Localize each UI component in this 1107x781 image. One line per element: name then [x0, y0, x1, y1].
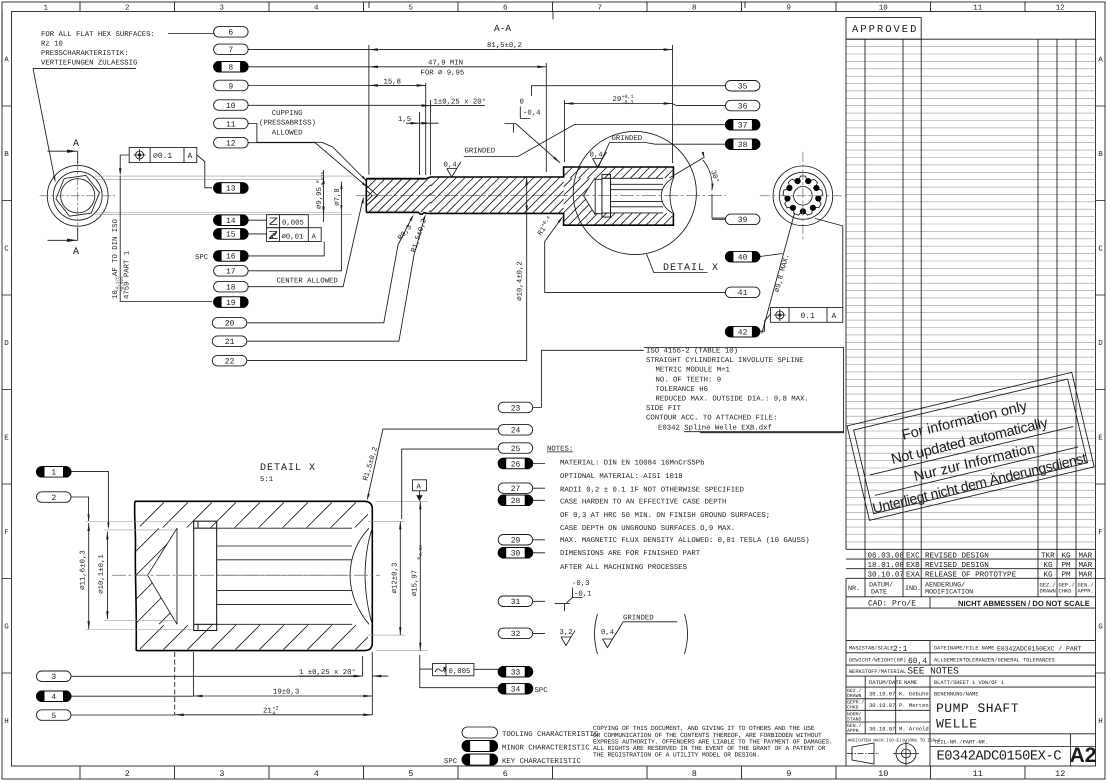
svg-text:12: 12	[1055, 769, 1065, 779]
svg-text:MAR: MAR	[1079, 552, 1093, 560]
legend placeholder	[444, 725, 833, 766]
svg-text:APPROVED: APPROVED	[852, 24, 918, 36]
svg-text:15,8: 15,8	[384, 79, 402, 87]
svg-text:A: A	[832, 312, 837, 321]
leader 21	[247, 255, 414, 341]
balloon 26	[498, 458, 533, 469]
balloon 21	[212, 336, 247, 347]
svg-text:METRIC MODULE M=1: METRIC MODULE M=1	[656, 367, 731, 375]
svg-text:MAR: MAR	[1079, 572, 1093, 580]
svg-text:3,2: 3,2	[560, 629, 573, 637]
svg-text:40: 40	[738, 253, 748, 262]
svg-text:⌀7,8: ⌀7,8	[334, 188, 342, 206]
(0,4 GRINDED)	[595, 614, 598, 654]
balloon 31	[498, 596, 533, 607]
svg-text:EXB: EXB	[906, 562, 920, 570]
legend minor characteristic	[462, 741, 498, 752]
svg-text:CAD: Pro/E: CAD: Pro/E	[868, 600, 916, 609]
shaft centerline	[356, 195, 726, 197]
svg-text:12: 12	[1056, 4, 1065, 13]
svg-text:-0,4: -0,4	[523, 110, 541, 118]
balloon 22	[212, 355, 247, 366]
svg-text:WELLE: WELLE	[936, 717, 978, 732]
svg-text:K. Gebuhe: K. Gebuhe	[899, 691, 929, 698]
dim d9,95	[323, 170, 325, 222]
svg-text:14: 14	[226, 217, 236, 226]
svg-text:81,5±0,2: 81,5±0,2	[487, 42, 522, 50]
svg-text:H: H	[4, 718, 9, 726]
balloon 40	[725, 251, 760, 262]
balloon 27	[498, 483, 533, 494]
svg-text:AF TO DIN ISO: AF TO DIN ISO	[112, 218, 120, 276]
svg-text:11: 11	[226, 120, 236, 129]
svg-text:20: 20	[225, 320, 235, 329]
svg-text:8: 8	[692, 769, 697, 779]
svg-text:Rz 10: Rz 10	[41, 41, 63, 49]
svg-text:NOTES:: NOTES:	[547, 446, 573, 454]
svg-text:CASE DEPTH ON UNGROUND SURFACE: CASE DEPTH ON UNGROUND SURFACES O,9 MAX.	[560, 525, 735, 533]
leader 25 to d12 dim	[402, 449, 499, 519]
leader 17	[248, 218, 341, 271]
leader 41 R1	[545, 218, 726, 293]
pump shaft outline	[366, 177, 430, 212]
svg-text:DIMENSIONS ARE FOR FINISHED PA: DIMENSIONS ARE FOR FINISHED PART	[560, 550, 701, 558]
balloon 25	[498, 443, 533, 454]
svg-text:CENTER ALLOWED: CENTER ALLOWED	[277, 278, 339, 286]
svg-text:8: 8	[692, 4, 697, 13]
svg-text:30.10.07: 30.10.07	[868, 571, 904, 580]
svg-text:REVISED DESIGN: REVISED DESIGN	[925, 551, 989, 560]
leader 1	[71, 471, 108, 527]
svg-text:MASZSTAB/SCALE: MASZSTAB/SCALE	[849, 646, 894, 652]
svg-text:23: 23	[511, 404, 521, 413]
leader 3	[71, 675, 360, 677]
feature control frame pos 0.1 A	[129, 148, 197, 163]
left letters	[4, 57, 9, 727]
svg-text:5: 5	[51, 712, 56, 721]
spline end concave	[670, 178, 673, 213]
svg-text:G: G	[4, 623, 9, 632]
leader 23	[533, 350, 644, 407]
balloon 19	[214, 297, 249, 308]
balloon 13	[214, 183, 249, 194]
balloon 38	[725, 139, 760, 150]
svg-text:GEWICHT/WEIGHT(GR): GEWICHT/WEIGHT(GR)	[849, 658, 906, 664]
svg-text:4: 4	[314, 769, 319, 779]
svg-text:DRAWN: DRAWN	[847, 693, 862, 699]
svg-text:37: 37	[738, 122, 748, 131]
svg-text:42: 42	[738, 329, 748, 338]
svg-text:0: 0	[520, 99, 524, 107]
dim 21 +2/0	[174, 652, 176, 715]
svg-text:10: 10	[878, 769, 888, 779]
svg-text:F: F	[4, 529, 9, 537]
svg-text:CHKD: CHKD	[847, 705, 859, 711]
leader 7	[248, 48, 369, 50]
svg-text:39: 39	[738, 216, 748, 225]
svg-text:34: 34	[511, 685, 521, 694]
balloon 11	[214, 118, 249, 129]
svg-text:33: 33	[511, 669, 521, 678]
svg-text:13: 13	[226, 185, 236, 194]
spline cone	[584, 178, 596, 215]
balloon 9	[214, 80, 249, 91]
note box	[644, 348, 844, 433]
svg-text:6: 6	[228, 29, 233, 38]
svg-text:0,4: 0,4	[590, 151, 604, 159]
svg-text:10: 10	[226, 102, 236, 111]
svg-text:26: 26	[511, 460, 521, 469]
leaders 26-30 short	[533, 464, 545, 553]
svg-text:OF 0,3 AT HRC 50 MIN. ON FINIS: OF 0,3 AT HRC 50 MIN. ON FINISH GROUND S…	[560, 512, 770, 520]
svg-text:ALLOWED: ALLOWED	[272, 129, 303, 137]
detail block outline	[135, 501, 137, 650]
svg-text:RELEASE OF PROTOTYPE: RELEASE OF PROTOTYPE	[925, 571, 1017, 580]
rightgrid placeholder	[846, 18, 1096, 597]
svg-text:P. Merten: P. Merten	[899, 702, 929, 709]
svg-text:CHKD: CHKD	[1059, 589, 1072, 595]
svg-text:CASE HARDEN TO AN EFFECTIVE CA: CASE HARDEN TO AN EFFECTIVE CASE DEPTH	[560, 498, 726, 506]
svg-text:DATEINAME/FILE NAME: DATEINAME/FILE NAME	[934, 646, 994, 652]
svg-text:E0342ADC0150EXC / PART: E0342ADC0150EXC / PART	[997, 646, 1082, 653]
leader 39	[712, 218, 725, 220]
balloon 7	[214, 44, 249, 55]
svg-text:41: 41	[738, 289, 748, 298]
balloon 37	[725, 120, 760, 131]
dim 1,5	[419, 112, 421, 175]
svg-text:OPTIONAL MATERIAL: AISI 1018: OPTIONAL MATERIAL: AISI 1018	[560, 473, 683, 481]
feature control frame 0.1 A	[771, 308, 843, 323]
svg-text:27: 27	[511, 485, 521, 494]
dim 47,9 MIN	[545, 63, 547, 172]
svg-text:MAX. MAGNETIC FLUX DENSITY ALL: MAX. MAGNETIC FLUX DENSITY ALLOWED: 0,01…	[560, 536, 810, 545]
top numbers	[43, 4, 1064, 13]
svg-text:-0,05: -0,05	[418, 545, 424, 559]
svg-text:A: A	[73, 247, 79, 258]
svg-text:32: 32	[511, 630, 521, 639]
balloon 3	[37, 671, 72, 682]
svg-text:C: C	[1098, 245, 1103, 254]
circlip ring redraw detail	[194, 521, 217, 630]
svg-text:GRINDED: GRINDED	[465, 148, 496, 156]
svg-text:6: 6	[503, 769, 508, 779]
svg-text:KEY CHARACTERISTIC: KEY CHARACTERISTIC	[502, 758, 581, 766]
svg-text:1: 1	[43, 5, 48, 13]
svg-text:APPR.: APPR.	[847, 728, 861, 734]
balloon 39	[725, 214, 760, 225]
balloon 15	[214, 229, 249, 240]
undercut groove R0,3	[419, 212, 423, 214]
svg-text:19: 19	[226, 299, 236, 308]
svg-text:4: 4	[51, 693, 56, 702]
svg-text:+0,175: +0,175	[116, 276, 121, 292]
svg-text:SPC: SPC	[535, 687, 549, 695]
balloon 29	[498, 535, 533, 546]
svg-text:47,9 MIN: 47,9 MIN	[428, 60, 463, 68]
svg-text:1: 1	[51, 469, 56, 478]
svg-text:30.10.07: 30.10.07	[869, 702, 895, 709]
svg-text:SPC: SPC	[195, 254, 209, 262]
leader 11	[248, 124, 366, 181]
balloon 35	[725, 81, 760, 92]
section arrows A-A	[77, 151, 79, 240]
revision entries	[846, 549, 1096, 597]
section view A-A hex end	[47, 165, 108, 226]
svg-text:2:1: 2:1	[893, 645, 908, 654]
svg-text:29: 29	[613, 96, 622, 104]
centerline detail	[112, 574, 380, 576]
dim 81,5±0,2	[369, 45, 673, 175]
balloon 16	[214, 251, 249, 262]
leader to balloon 19	[120, 176, 212, 301]
svg-text:MINOR CHARACTERISTIC: MINOR CHARACTERISTIC	[502, 744, 590, 752]
svg-text:TKR: TKR	[1041, 552, 1055, 560]
svg-text:EXA: EXA	[906, 572, 920, 580]
svg-text:2: 2	[125, 4, 130, 13]
svg-text:MATERIAL: DIN EN 10084 16MnCrS: MATERIAL: DIN EN 10084 16MnCrS5Pb	[560, 459, 705, 468]
30° angle	[670, 157, 705, 178]
spline end view	[773, 166, 833, 226]
svg-text:⌀0,01: ⌀0,01	[282, 233, 305, 241]
svg-text:THE REGISTRATION OF A UTILITY: THE REGISTRATION OF A UTILITY MODEL OR D…	[593, 752, 760, 759]
leader 2	[71, 497, 89, 521]
balloon 8	[214, 62, 249, 73]
balloon 4	[37, 691, 72, 702]
svg-text:CUPPING: CUPPING	[272, 110, 303, 118]
leader 24 to R1,5 detail	[368, 429, 499, 498]
svg-text:D: D	[4, 340, 9, 348]
svg-text:7: 7	[597, 5, 602, 13]
svg-text:VERTIEFUNGEN ZULAESSIG: VERTIEFUNGEN ZULAESSIG	[41, 60, 137, 68]
bottom numbers	[125, 769, 1066, 779]
dim d10,1±0,1	[104, 530, 175, 621]
svg-text:TOLERANCE H6: TOLERANCE H6	[656, 386, 709, 394]
svg-text:5:1: 5:1	[260, 476, 274, 484]
datum A	[413, 480, 427, 491]
svg-text:⌀12±0,3: ⌀12±0,3	[392, 563, 400, 594]
leader 38	[646, 143, 726, 145]
svg-text:A: A	[1098, 57, 1103, 65]
svg-text:B: B	[1098, 151, 1103, 159]
svg-text:SIDE FIT: SIDE FIT	[646, 405, 682, 413]
svg-text:⌀15,97: ⌀15,97	[412, 570, 420, 596]
svg-text:A-A: A-A	[494, 23, 511, 34]
svg-text:C: C	[4, 245, 9, 254]
leader 36	[673, 104, 726, 106]
spline lines detail	[217, 527, 352, 529]
svg-text:18.01.08: 18.01.08	[868, 561, 905, 570]
balloon 42	[725, 326, 760, 337]
svg-text:EXC: EXC	[906, 551, 920, 560]
circlip ring redraw	[602, 175, 611, 218]
svg-text:25: 25	[511, 445, 521, 454]
svg-text:H: H	[1098, 718, 1103, 726]
svg-text:AFTER ALL MACHINING PROCESSES: AFTER ALL MACHINING PROCESSES	[560, 564, 688, 572]
leader 35	[532, 86, 726, 96]
svg-text:21: 21	[225, 338, 235, 347]
svg-text:DATUM/DATE: DATUM/DATE	[869, 679, 903, 686]
balloon 2	[37, 492, 72, 503]
d9,8 MAX.	[762, 213, 795, 334]
hatching	[367, 168, 672, 225]
leader 31/32	[533, 601, 545, 633]
svg-text:CONTOUR ACC. TO ATTACHED FILE:: CONTOUR ACC. TO ATTACHED FILE:	[646, 415, 777, 423]
dim 29 +0,1/-0,3	[563, 100, 565, 162]
svg-text:E: E	[4, 435, 9, 443]
stamp rule 1	[870, 427, 1073, 475]
leader 37	[673, 124, 726, 126]
svg-text:19±0,3: 19±0,3	[273, 689, 299, 697]
leader 8	[248, 66, 369, 68]
svg-text:1,5: 1,5	[398, 116, 411, 124]
notes placeholder	[547, 347, 844, 655]
svg-text:0,4: 0,4	[601, 629, 615, 637]
svg-text:DRAWN: DRAWN	[1040, 589, 1056, 595]
svg-text:A: A	[312, 233, 317, 241]
svg-text:WERKSTOFF/MATERIAL: WERKSTOFF/MATERIAL	[849, 669, 906, 675]
spline end concave detail	[365, 528, 372, 624]
svg-text:E0342ADC0150EX-C: E0342ADC0150EX-C	[937, 750, 1062, 765]
svg-text:A: A	[417, 484, 422, 492]
balloon 32	[498, 628, 533, 639]
balloons placeholder	[33, 27, 783, 721]
svg-text:17: 17	[226, 268, 236, 277]
3,2 roughness	[561, 631, 575, 646]
balloon 17	[214, 266, 249, 277]
right letters	[1098, 57, 1103, 727]
svg-text:11: 11	[973, 5, 983, 13]
svg-text:2: 2	[51, 494, 56, 503]
svg-text:SEE NOTES: SEE NOTES	[907, 666, 959, 677]
balloon 12	[214, 137, 249, 148]
balloon 20	[212, 318, 247, 329]
balloon 28	[498, 495, 533, 506]
svg-text:30.10.07: 30.10.07	[869, 726, 895, 733]
svg-text:4: 4	[314, 5, 319, 13]
svg-text:0,4: 0,4	[444, 161, 458, 169]
svg-text:BENENNUNG/NAME: BENENNUNG/NAME	[934, 692, 979, 698]
svg-text:GRINDED: GRINDED	[612, 135, 643, 143]
svg-text:-0,3: -0,3	[572, 580, 590, 588]
DETAIL X label	[647, 254, 708, 273]
svg-text:21: 21	[263, 707, 272, 715]
svg-text:MAR: MAR	[1079, 562, 1093, 570]
svg-text:30: 30	[511, 550, 521, 559]
frame 0,005 profile	[433, 663, 474, 675]
svg-text:9: 9	[786, 769, 791, 779]
APPROVED header box	[846, 18, 921, 40]
svg-text:06.03.08: 06.03.08	[868, 551, 905, 560]
leader 42	[759, 314, 771, 332]
balloon 33	[498, 667, 533, 678]
leader 4	[71, 695, 193, 697]
spline teeth lines	[611, 177, 663, 179]
leader 5	[71, 714, 175, 716]
svg-text:GRINDED: GRINDED	[623, 615, 654, 623]
dim 15,8	[425, 83, 427, 175]
dim d11,6±0,3	[86, 522, 193, 630]
svg-text:22: 22	[225, 357, 235, 366]
balloon 41	[725, 287, 760, 298]
svg-text:24: 24	[511, 427, 521, 436]
tooth gaps	[784, 178, 821, 214]
svg-text:38: 38	[738, 141, 748, 150]
dim d7,8	[340, 182, 342, 219]
titleblock placeholder	[846, 597, 1096, 767]
svg-text:0: 0	[273, 711, 276, 717]
svg-text:1±0,25 x 20°: 1±0,25 x 20°	[434, 98, 487, 106]
svg-text:BLATT/SHEET 1 VON/OF 1: BLATT/SHEET 1 VON/OF 1	[934, 680, 1004, 686]
svg-text:18: 18	[226, 284, 236, 293]
svg-text:REVISED DESIGN: REVISED DESIGN	[925, 561, 989, 570]
balloon 34	[498, 683, 533, 694]
legend key characteristic	[462, 754, 498, 765]
svg-text:A2: A2	[1070, 744, 1097, 767]
cone	[148, 528, 177, 624]
stamp outer box	[847, 372, 1094, 520]
svg-text:PM: PM	[1062, 572, 1072, 580]
balloon 1	[37, 467, 72, 478]
svg-text:⌀10,4±0,2: ⌀10,4±0,2	[517, 261, 525, 300]
svg-text:6: 6	[503, 4, 508, 13]
fold marks	[369, 2, 745, 20]
svg-text:ANSICHTEN NACH ISO-E(1H)ONS TO: ANSICHTEN NACH ISO-E(1H)ONS TO ISO-C	[848, 738, 941, 744]
dim 19±0,3	[193, 652, 372, 696]
leader to hex flat	[120, 155, 129, 172]
leader 12	[248, 143, 367, 187]
svg-text:STAND: STAND	[847, 716, 862, 722]
balloon 23	[498, 402, 533, 413]
balloon 24	[498, 425, 533, 436]
svg-text:0,005: 0,005	[282, 220, 304, 228]
svg-text:REDUCED MAX. OUTSIDE DIA.: 9,8: REDUCED MAX. OUTSIDE DIA.: 9,8 MAX.	[656, 396, 809, 404]
stamp rule 2	[875, 447, 1078, 495]
rightview placeholder	[760, 152, 846, 334]
leader 16	[248, 242, 324, 256]
svg-text:FOR ⌀ 9,95: FOR ⌀ 9,95	[421, 70, 465, 78]
svg-text:FOR ALL FLAT HEX SURFACES:: FOR ALL FLAT HEX SURFACES:	[41, 31, 155, 39]
empty revision grid	[846, 47, 1096, 542]
balloon 10	[214, 100, 249, 111]
leader 40	[759, 254, 782, 257]
svg-text:STRAIGHT CYLINDRICAL INVOLUTE: STRAIGHT CYLINDRICAL INVOLUTE SPLINE	[646, 357, 804, 365]
grinding contour lines	[366, 177, 425, 211]
circlip ring	[602, 175, 611, 218]
svg-text:9: 9	[786, 4, 791, 13]
cell lines	[846, 597, 1096, 767]
svg-text:⌀9,95: ⌀9,95	[316, 187, 324, 209]
svg-text:30.10.07: 30.10.07	[869, 691, 895, 698]
svg-text:PUMP SHAFT: PUMP SHAFT	[936, 701, 1019, 716]
svg-text:NICHT ABMESSEN / DO NOT SCALE: NICHT ABMESSEN / DO NOT SCALE	[958, 599, 1090, 608]
stamp placeholder	[847, 372, 1094, 520]
svg-text:ALLGEMEINTOLERANZEN/GENERAL TO: ALLGEMEINTOLERANZEN/GENERAL TOLERANCES	[934, 658, 1055, 664]
svg-text:36: 36	[738, 102, 748, 111]
svg-text:0,005: 0,005	[449, 668, 471, 676]
dim d10,4±0,2	[526, 177, 528, 361]
svg-text:15: 15	[226, 231, 236, 240]
dim 1±0,25x20 detail	[363, 652, 373, 676]
svg-text:(PRESSABRISS): (PRESSABRISS)	[259, 119, 316, 128]
svg-text:5: 5	[408, 769, 413, 779]
svg-text:16: 16	[226, 253, 236, 262]
svg-text:PRESSCHARAKTERISTIK:: PRESSCHARAKTERISTIK:	[41, 50, 129, 58]
leader to balloon 13	[197, 155, 212, 188]
svg-text:D: D	[1098, 340, 1103, 348]
svg-text:TEIL-NR./PART-NR.: TEIL-NR./PART-NR.	[934, 740, 988, 746]
svg-text:5: 5	[408, 5, 413, 13]
detailx placeholder	[80, 446, 429, 717]
